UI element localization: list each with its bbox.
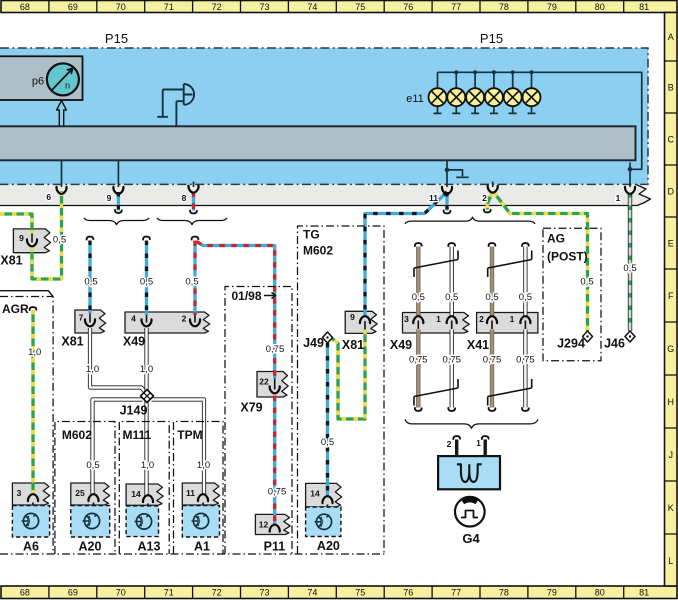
svg-text:77: 77 xyxy=(451,588,461,598)
svg-text:69: 69 xyxy=(68,2,78,12)
P15 connector pin 2 xyxy=(488,186,498,193)
svg-text:3: 3 xyxy=(404,314,409,324)
device P11 connector box xyxy=(255,514,290,534)
svg-text:X81: X81 xyxy=(0,254,22,268)
svg-text:0,5: 0,5 xyxy=(140,277,153,288)
svg-text:0,5: 0,5 xyxy=(485,292,498,303)
riser pin 11 + ground xyxy=(447,160,469,187)
connection J46 xyxy=(625,331,635,342)
svg-text:0,75: 0,75 xyxy=(266,344,285,355)
twisted pair symbol X49 bottom xyxy=(414,379,458,406)
wire blue/black pin9 stub xyxy=(117,192,119,211)
connector X49 pins 4/2 box xyxy=(125,312,210,333)
svg-text:(POST): (POST) xyxy=(547,250,588,264)
svg-text:2: 2 xyxy=(447,439,452,449)
svg-text:G4: G4 xyxy=(462,531,480,546)
sensor G4 xyxy=(455,497,485,527)
svg-text:TPM: TPM xyxy=(177,428,202,442)
wire red/blue branch to X49:2 xyxy=(194,315,196,323)
connector X41 pins 2/1 box xyxy=(477,313,538,334)
svg-text:74: 74 xyxy=(307,588,317,598)
svg-text:70: 70 xyxy=(116,2,126,12)
e11 lamp bus xyxy=(438,72,642,187)
svg-text:79: 79 xyxy=(547,588,557,598)
connector X81 pin 9 box in TG xyxy=(345,311,377,333)
svg-text:14: 14 xyxy=(310,489,320,499)
svg-text:1,0: 1,0 xyxy=(86,364,99,375)
lamp risers xyxy=(438,72,532,88)
svg-text:01/98: 01/98 xyxy=(232,289,262,303)
svg-text:1,0: 1,0 xyxy=(197,460,210,471)
heater G4 connector box xyxy=(438,456,500,489)
svg-text:M602: M602 xyxy=(62,428,92,442)
svg-text:0,5: 0,5 xyxy=(623,263,636,274)
svg-text:69: 69 xyxy=(68,588,78,598)
dashed frame TPM xyxy=(174,422,224,555)
svg-text:P11: P11 xyxy=(264,540,286,554)
wire black G4 pin2 xyxy=(455,440,458,457)
svg-text:0,75: 0,75 xyxy=(442,355,461,366)
P15 connector pin 6 xyxy=(56,187,66,194)
svg-text:J294: J294 xyxy=(557,337,585,351)
svg-text:C: C xyxy=(667,134,674,144)
svg-text:P15: P15 xyxy=(105,31,128,46)
svg-text:4: 4 xyxy=(131,314,136,324)
svg-text:AG: AG xyxy=(547,232,565,246)
stub pin 8 xyxy=(193,182,195,188)
svg-text:75: 75 xyxy=(355,2,365,12)
svg-text:B: B xyxy=(668,82,674,92)
device A13 connector box xyxy=(126,484,163,505)
svg-text:n: n xyxy=(65,81,70,91)
connector X81 pin 7 box xyxy=(75,310,106,333)
svg-text:0,5: 0,5 xyxy=(580,277,593,288)
svg-text:71: 71 xyxy=(164,2,174,12)
svg-text:78: 78 xyxy=(499,588,509,598)
svg-text:72: 72 xyxy=(212,2,222,12)
svg-text:2: 2 xyxy=(482,193,487,203)
wire white X49:4 through J149 to A13:14 xyxy=(146,328,148,496)
dashed frame AGR xyxy=(0,291,53,297)
svg-text:78: 78 xyxy=(499,2,509,12)
junction J149 xyxy=(141,390,154,403)
svg-text:11: 11 xyxy=(429,193,438,203)
svg-text:77: 77 xyxy=(451,2,461,12)
svg-text:0,5: 0,5 xyxy=(445,292,458,303)
svg-text:TG: TG xyxy=(303,228,320,242)
svg-text:0,5: 0,5 xyxy=(412,292,425,303)
svg-text:0,5: 0,5 xyxy=(84,277,97,288)
dashed frame AG POST xyxy=(543,228,601,361)
brace bundle to G4 xyxy=(405,419,538,428)
svg-text:0,75: 0,75 xyxy=(409,355,428,366)
wire red/blue pin8 stub xyxy=(193,192,195,211)
svg-text:D: D xyxy=(667,186,674,196)
svg-text:X81: X81 xyxy=(342,338,364,352)
twisted pair symbol X49 top xyxy=(414,251,458,278)
svg-text:0,5: 0,5 xyxy=(185,277,198,288)
svg-text:72: 72 xyxy=(212,588,222,598)
wire white J149 to A1:11 xyxy=(152,400,205,495)
device A20 body second xyxy=(306,507,341,537)
twisted pair symbol X41 bottom xyxy=(488,379,532,406)
svg-text:A20: A20 xyxy=(317,539,340,553)
circuit board bar xyxy=(0,126,636,160)
svg-text:11: 11 xyxy=(186,488,195,498)
wire green/white pin1 to J46 xyxy=(629,193,631,331)
wire blue/black pin11 to X81:9(TG) xyxy=(364,321,366,330)
svg-text:1: 1 xyxy=(476,438,481,448)
device A1 connector box xyxy=(182,483,219,505)
wire white X81:7 to J149 xyxy=(90,328,145,392)
svg-text:68: 68 xyxy=(20,588,30,598)
svg-text:12: 12 xyxy=(259,520,269,530)
wire green/yellow AGR to A6:3 xyxy=(32,310,34,494)
device A20 connector box xyxy=(71,483,110,505)
P15 box dash-dot border xyxy=(0,48,648,184)
twisted pair symbol X41 top xyxy=(488,251,532,278)
svg-text:74: 74 xyxy=(307,2,317,12)
dashed frame M111 xyxy=(119,422,169,555)
svg-text:1: 1 xyxy=(616,193,621,203)
brace fanout pin8 xyxy=(157,218,227,225)
male wire ends xyxy=(115,210,122,213)
P15 connector pin 1 xyxy=(625,187,635,194)
connection J294 xyxy=(583,331,593,342)
wire blue/black pin11 stub xyxy=(446,192,448,211)
svg-text:1: 1 xyxy=(436,314,441,324)
instrument p6 housing xyxy=(0,56,83,100)
connector X79 pin 22 box xyxy=(257,372,288,398)
wire red/blue branch to X79:22 xyxy=(274,378,276,390)
wire green/yellow pin2 to J294 xyxy=(494,193,588,332)
shared bottom dash-dot line xyxy=(0,553,384,555)
svg-text:9: 9 xyxy=(19,233,24,243)
svg-text:G: G xyxy=(667,344,674,354)
svg-text:K: K xyxy=(668,503,674,513)
connector X49 pins 3/1 box xyxy=(403,313,470,334)
svg-text:p6: p6 xyxy=(32,76,44,88)
svg-text:A13: A13 xyxy=(138,540,161,554)
svg-text:X49: X49 xyxy=(123,335,145,349)
svg-text:F: F xyxy=(668,291,674,301)
connector X81 pin 9 box xyxy=(13,229,50,253)
svg-text:81: 81 xyxy=(639,588,649,598)
brace fanout pin9 xyxy=(84,218,149,225)
wire blue/black J49 to A20:14 xyxy=(327,343,329,496)
svg-text:71: 71 xyxy=(164,588,174,598)
brace bundle to cluster xyxy=(405,217,535,224)
device A13 body xyxy=(126,506,158,537)
wire white X49:1 xyxy=(451,321,453,330)
wire white J149 to A20:25 xyxy=(93,400,143,495)
svg-text:6: 6 xyxy=(46,192,51,202)
svg-text:1: 1 xyxy=(510,314,515,324)
wire green/yellow pin6 to X81:9 to left edge xyxy=(0,214,32,234)
P15 connector pin 8 xyxy=(188,186,198,193)
svg-text:7: 7 xyxy=(79,313,84,323)
svg-text:73: 73 xyxy=(259,2,269,12)
svg-text:0,5: 0,5 xyxy=(53,235,66,246)
svg-text:A6: A6 xyxy=(23,540,39,554)
svg-text:X49: X49 xyxy=(390,338,412,352)
svg-text:0,5: 0,5 xyxy=(86,460,99,471)
svg-text:J46: J46 xyxy=(604,337,625,351)
svg-text:81: 81 xyxy=(639,2,649,12)
wire black G4 pin1 xyxy=(484,440,487,457)
svg-text:80: 80 xyxy=(595,2,605,12)
svg-text:A20: A20 xyxy=(79,540,102,554)
wire red/blue X79 to P11:12 xyxy=(274,396,276,525)
svg-text:76: 76 xyxy=(403,2,413,12)
P15 connector pin 9 xyxy=(113,187,123,194)
heater element symbol xyxy=(457,464,482,482)
riser pin 9 xyxy=(117,160,119,187)
svg-text:L: L xyxy=(668,556,673,566)
svg-text:25: 25 xyxy=(75,488,85,498)
svg-text:14: 14 xyxy=(131,489,141,499)
svg-text:AGR: AGR xyxy=(2,302,29,316)
svg-text:0,75: 0,75 xyxy=(483,355,502,366)
dashed frame M602 xyxy=(55,422,115,555)
device A6 connector box xyxy=(12,483,49,505)
device A1 body xyxy=(182,506,219,538)
svg-text:M602: M602 xyxy=(303,244,333,258)
svg-text:H: H xyxy=(667,397,674,407)
svg-text:0,5: 0,5 xyxy=(519,292,532,303)
connector and device boxes (under wires) xyxy=(12,229,538,537)
svg-text:68: 68 xyxy=(20,2,30,12)
P15 connector pin 11 xyxy=(442,187,452,194)
svg-text:X41: X41 xyxy=(467,338,489,352)
dashed frame 01/98 xyxy=(225,287,292,555)
wire blue/black branch to X49:4 xyxy=(146,315,148,323)
connector strip gray band xyxy=(0,184,651,205)
svg-text:X79: X79 xyxy=(240,401,262,415)
male wire starts of fanout branches xyxy=(87,237,94,240)
svg-text:75: 75 xyxy=(355,588,365,598)
stub pin 2 xyxy=(492,182,494,188)
svg-text:70: 70 xyxy=(116,588,126,598)
svg-text:1,0: 1,0 xyxy=(28,347,41,358)
lamp lower stubs xyxy=(434,106,536,113)
svg-text:80: 80 xyxy=(595,588,605,598)
device A20 body xyxy=(71,506,110,538)
svg-text:8: 8 xyxy=(182,193,187,203)
svg-text:73: 73 xyxy=(259,588,269,598)
wire green/yellow pin2 stub xyxy=(487,193,492,210)
open arrow into p6 xyxy=(57,101,67,127)
svg-text:e11: e11 xyxy=(406,93,424,105)
gauge p6 xyxy=(47,63,79,95)
svg-text:M111: M111 xyxy=(123,428,152,442)
svg-text:0,75: 0,75 xyxy=(268,486,287,497)
horn symbol xyxy=(157,84,194,126)
svg-text:X81: X81 xyxy=(61,335,83,349)
svg-text:2: 2 xyxy=(479,314,484,324)
riser pin 6 xyxy=(61,160,63,187)
wire green/yellow X81:9(TG) to J49 xyxy=(330,330,366,419)
svg-text:J: J xyxy=(668,450,673,460)
svg-text:9: 9 xyxy=(107,193,112,203)
device A20 pin 14 connector box xyxy=(306,483,342,507)
svg-text:22: 22 xyxy=(259,377,269,387)
svg-text:3: 3 xyxy=(17,488,22,498)
svg-text:A: A xyxy=(668,32,674,42)
svg-text:1,0: 1,0 xyxy=(141,460,154,471)
connection J49 xyxy=(323,332,333,343)
svg-text:E: E xyxy=(668,238,674,248)
svg-text:2: 2 xyxy=(182,314,187,324)
P15 instrument cluster blue area xyxy=(0,48,648,184)
svg-text:0,5: 0,5 xyxy=(321,437,334,448)
svg-text:P15: P15 xyxy=(480,31,503,46)
device A6 body xyxy=(12,506,49,538)
svg-text:J149: J149 xyxy=(120,404,148,418)
dashed frame TG M602 xyxy=(298,226,385,554)
svg-text:J49: J49 xyxy=(303,336,324,350)
svg-text:76: 76 xyxy=(403,588,413,598)
wire white X41:1 xyxy=(524,321,526,330)
lamps e11 xyxy=(429,88,447,106)
wire brown X41:2 xyxy=(491,321,493,330)
wire brown X49:3 xyxy=(417,321,419,330)
svg-text:1,0: 1,0 xyxy=(140,364,153,375)
svg-text:0,75: 0,75 xyxy=(516,355,535,366)
svg-text:A1: A1 xyxy=(194,540,210,554)
svg-text:9: 9 xyxy=(350,312,355,322)
svg-text:79: 79 xyxy=(547,2,557,12)
wire blue/black branch to X81:7 xyxy=(89,313,91,323)
